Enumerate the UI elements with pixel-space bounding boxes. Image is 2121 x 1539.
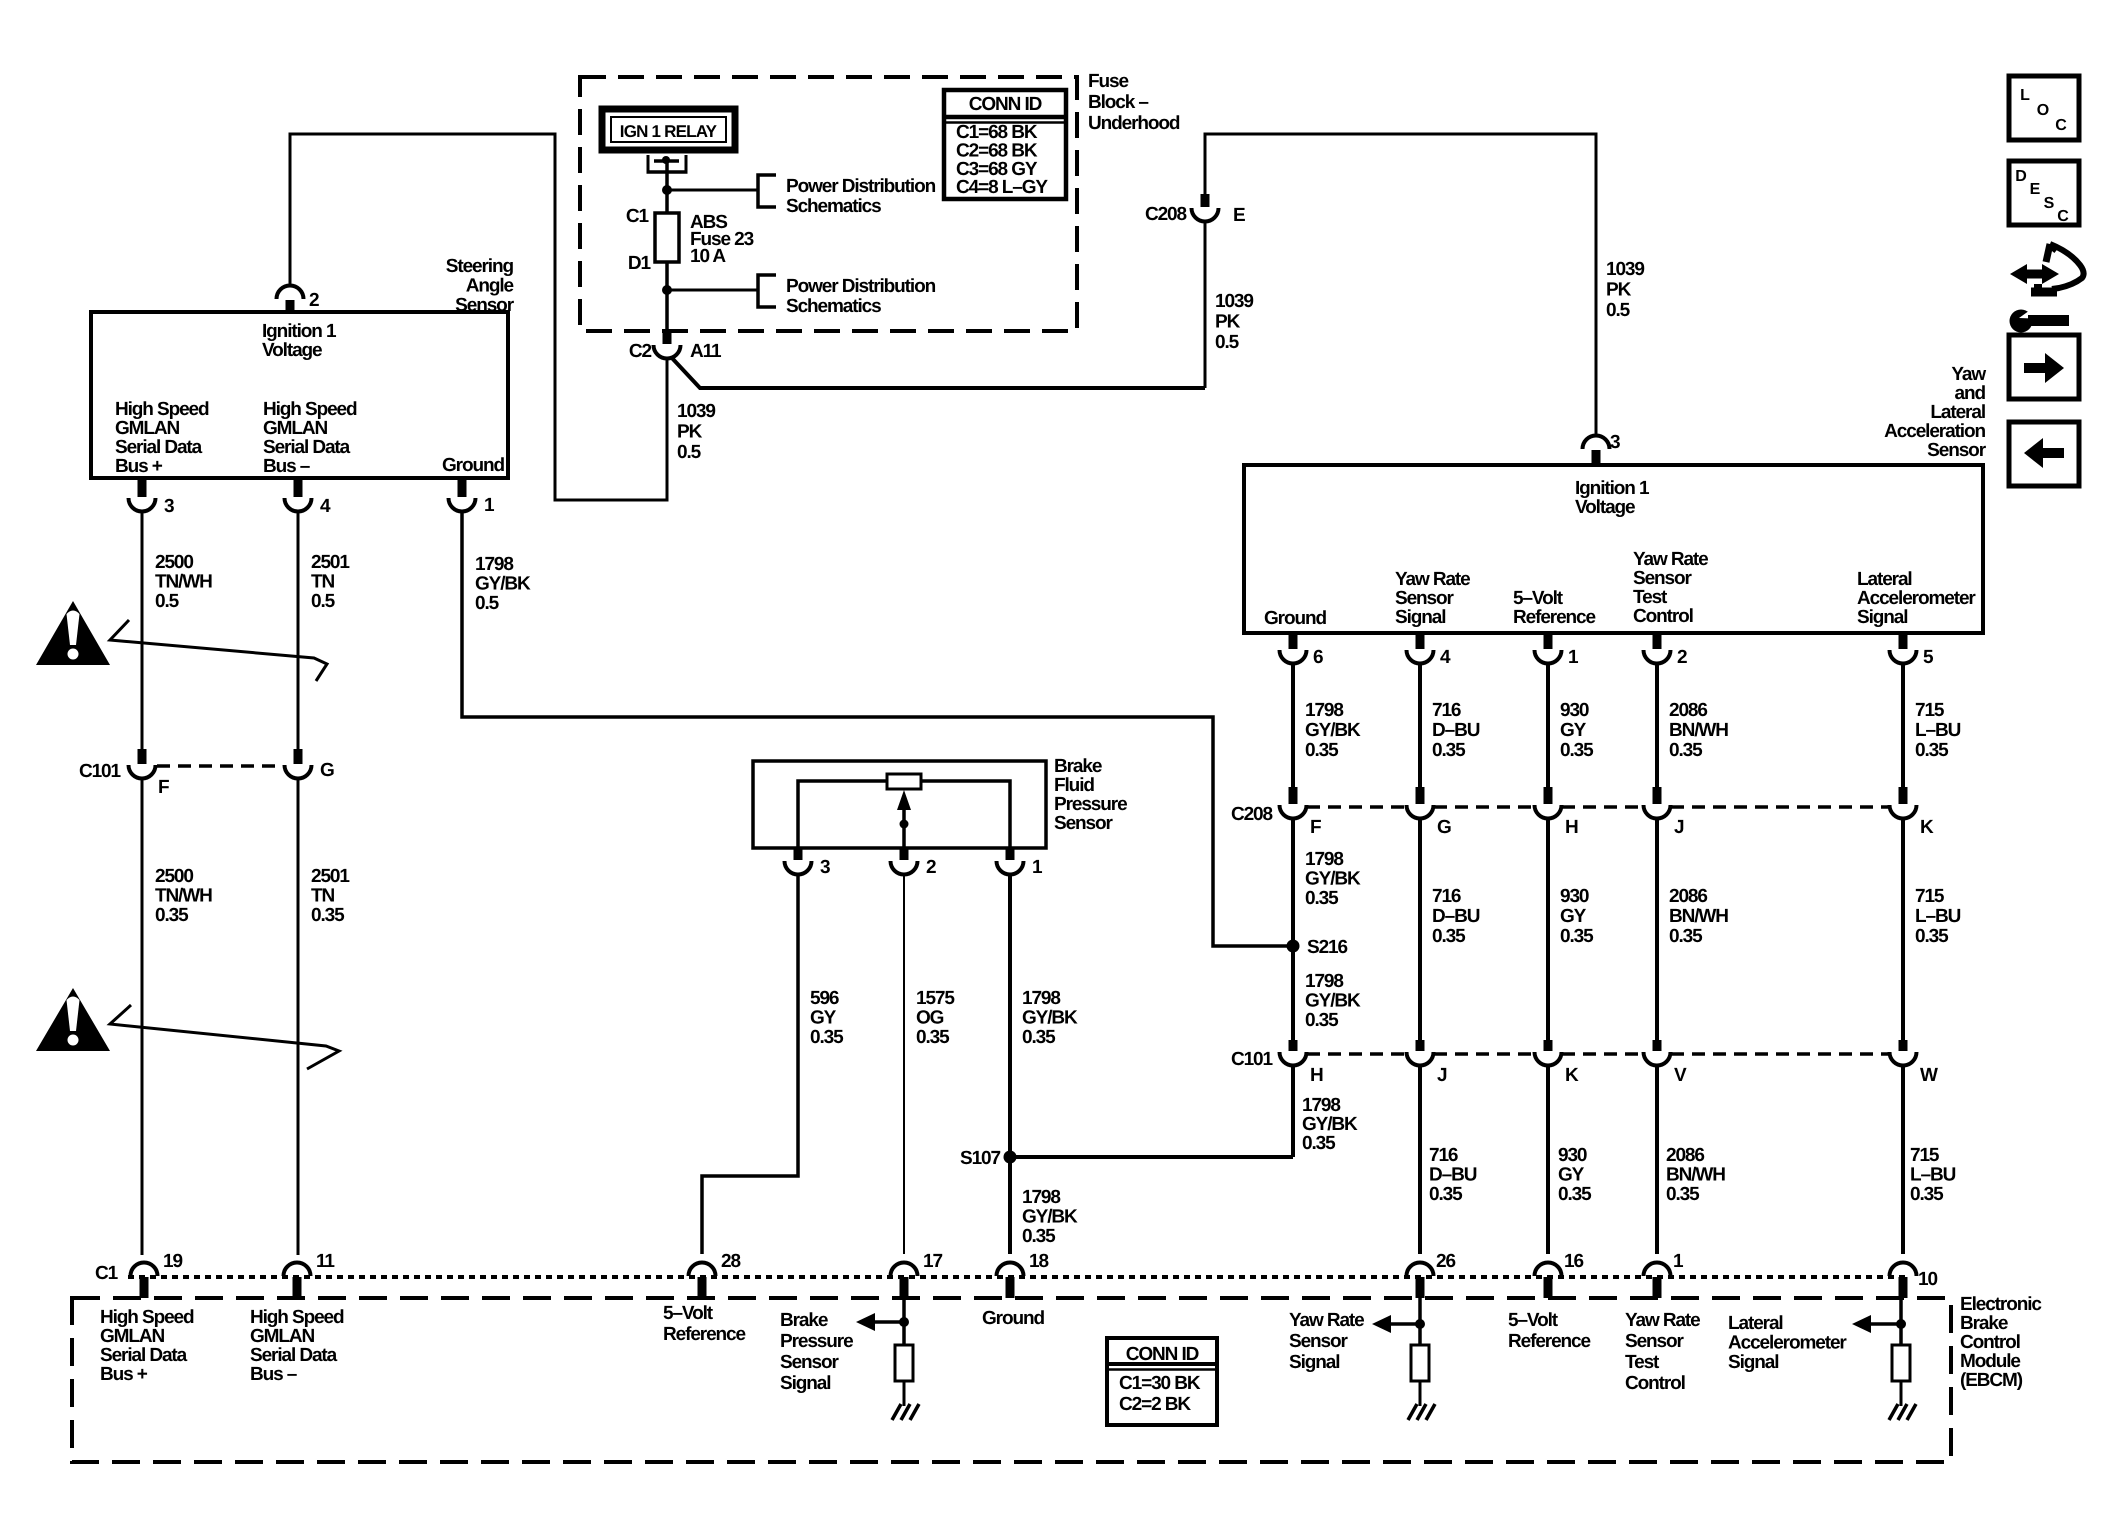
connector C101 pin K <box>1544 1040 1553 1051</box>
svg-text:High Speed: High Speed <box>250 1307 344 1328</box>
wire test control 2086 (C208 to C101) <box>1655 818 1659 1040</box>
svg-text:Bus –: Bus – <box>250 1364 297 1385</box>
connector C1 pin 28 (EBCM) <box>689 1263 716 1277</box>
svg-text:GY: GY <box>1558 1165 1585 1186</box>
twisted pair callout 1 <box>110 620 327 681</box>
connector C101 pin H <box>1289 1040 1298 1051</box>
wiper junction dot <box>900 820 909 829</box>
wire C208 E up and right to yaw pin 3 <box>1205 134 1596 437</box>
wire branch to power distribution 2 <box>667 289 758 292</box>
svg-text:1: 1 <box>1568 647 1579 668</box>
junction node (fuse output) <box>662 285 672 295</box>
svg-text:Serial Data: Serial Data <box>100 1345 188 1366</box>
svg-text:5: 5 <box>1923 647 1934 668</box>
internal wire pin to ground (x=904) <box>902 1298 906 1345</box>
svg-text:Yaw: Yaw <box>1951 364 1986 385</box>
svg-text:TN/WH: TN/WH <box>155 572 212 593</box>
ground symbol <box>1408 1404 1417 1420</box>
fuse block underhood dashed box <box>580 77 1077 331</box>
svg-text:3: 3 <box>820 857 830 878</box>
svg-text:2: 2 <box>309 290 319 311</box>
svg-text:BN/WH: BN/WH <box>1669 720 1728 741</box>
svg-text:CONN ID: CONN ID <box>1126 1344 1199 1365</box>
pin 3 (steering) <box>138 478 147 497</box>
svg-text:1: 1 <box>1032 857 1043 878</box>
icon box arrow left <box>2009 422 2079 486</box>
svg-text:6: 6 <box>1313 647 1323 668</box>
svg-text:Serial Data: Serial Data <box>115 437 203 458</box>
connector C208 pin G <box>1416 787 1425 804</box>
svg-text:Bus +: Bus + <box>115 456 163 477</box>
svg-text:Angle: Angle <box>466 276 514 297</box>
relay contact symbol <box>647 155 650 173</box>
svg-text:Fuse: Fuse <box>1088 71 1128 92</box>
svg-text:Steering: Steering <box>446 256 514 277</box>
pin 1 (brake sensor) <box>1006 848 1015 860</box>
svg-text:H: H <box>1565 817 1578 838</box>
svg-text:Control: Control <box>1625 1373 1685 1394</box>
svg-text:GY/BK: GY/BK <box>1305 720 1361 741</box>
svg-text:D–BU: D–BU <box>1432 906 1480 927</box>
wire 596 GY <box>702 874 798 1254</box>
svg-text:S216: S216 <box>1307 937 1348 958</box>
svg-text:Test: Test <box>1625 1352 1660 1373</box>
pin 3 (yaw, top) <box>1583 436 1610 450</box>
icon double arrow with wrench <box>2010 264 2059 284</box>
connector C208 pin K <box>1899 787 1908 804</box>
wire 1798 GY/BK 0.5 from steering ground <box>462 510 1290 946</box>
svg-text:26: 26 <box>1436 1251 1455 1272</box>
svg-text:4: 4 <box>320 496 331 517</box>
svg-text:GY/BK: GY/BK <box>1305 869 1361 890</box>
svg-text:GMLAN: GMLAN <box>115 418 180 439</box>
svg-text:GY: GY <box>1560 906 1587 927</box>
connector C208 pin H <box>1544 787 1553 804</box>
wire A11 diagonal to C208 E <box>671 357 1205 388</box>
pin 1 (steering ground) <box>458 478 467 497</box>
svg-text:715: 715 <box>1915 886 1945 907</box>
svg-text:Accelerometer: Accelerometer <box>1728 1333 1847 1354</box>
svg-text:Yaw Rate: Yaw Rate <box>1395 569 1470 590</box>
pin 5 (yaw) <box>1899 633 1908 649</box>
svg-text:Voltage: Voltage <box>1575 497 1635 518</box>
svg-text:D–BU: D–BU <box>1429 1165 1477 1186</box>
svg-text:1039: 1039 <box>677 401 715 422</box>
wire S107 to C101 H column <box>1010 1155 1293 1159</box>
svg-text:0.35: 0.35 <box>1560 926 1594 947</box>
signal arrow <box>873 1320 904 1324</box>
wire 5V ref 930 (yaw to C208) <box>1546 663 1550 787</box>
svg-text:Fluid: Fluid <box>1054 775 1094 796</box>
internal resistor <box>1892 1345 1910 1381</box>
svg-text:0.35: 0.35 <box>1432 926 1466 947</box>
svg-text:C101: C101 <box>1231 1049 1274 1070</box>
svg-text:(EBCM): (EBCM) <box>1960 1370 2023 1391</box>
svg-text:GMLAN: GMLAN <box>263 418 328 439</box>
svg-text:Control: Control <box>1633 606 1693 627</box>
connector row C1/C2 EBCM dotted line <box>128 1275 1910 1279</box>
svg-text:GY/BK: GY/BK <box>1022 1008 1078 1029</box>
svg-text:High Speed: High Speed <box>115 399 209 420</box>
svg-text:0.35: 0.35 <box>810 1027 844 1048</box>
pin 2 (steering, top) <box>277 286 304 300</box>
wire 5V ref 930 (C208 to C101) <box>1546 818 1550 1040</box>
svg-text:1798: 1798 <box>1022 1187 1060 1208</box>
connector C101 pin W <box>1899 1040 1908 1051</box>
svg-text:0.35: 0.35 <box>1669 740 1703 761</box>
potentiometer resistor body <box>887 774 921 789</box>
internal wire pin to ground (x=1420) <box>1418 1298 1422 1345</box>
svg-text:Sensor: Sensor <box>1927 440 1987 461</box>
svg-text:2086: 2086 <box>1669 700 1707 721</box>
pin 1 (yaw) <box>1544 633 1553 649</box>
svg-text:Pressure: Pressure <box>780 1331 853 1352</box>
svg-text:CONN ID: CONN ID <box>969 94 1042 115</box>
svg-text:Voltage: Voltage <box>262 340 322 361</box>
svg-text:1798: 1798 <box>1305 971 1343 992</box>
svg-text:0.35: 0.35 <box>1666 1184 1700 1205</box>
svg-text:Serial Data: Serial Data <box>263 437 351 458</box>
svg-text:C4=8 L–GY: C4=8 L–GY <box>956 177 1048 198</box>
svg-text:PK: PK <box>677 422 703 443</box>
yaw sensor box <box>1244 465 1983 633</box>
wire lateral accel 715 (yaw to C208) <box>1901 663 1905 787</box>
wire yaw signal 716 (C101 to EBCM) <box>1418 1065 1422 1254</box>
icon box DESC <box>2009 161 2079 225</box>
svg-text:J: J <box>1437 1065 1447 1086</box>
svg-text:D: D <box>2015 168 2027 185</box>
svg-text:0.35: 0.35 <box>1558 1184 1592 1205</box>
svg-text:V: V <box>1674 1065 1687 1086</box>
svg-text:0.5: 0.5 <box>155 591 180 612</box>
svg-text:2: 2 <box>926 857 936 878</box>
bracket power distribution 1 <box>758 175 776 207</box>
svg-text:10: 10 <box>1918 1269 1937 1290</box>
wire 1798 GY/BK (C208 F to S216 to C101 H) <box>1291 818 1295 1040</box>
svg-text:0.35: 0.35 <box>1305 888 1339 909</box>
wire lateral accel 715 (C208 to C101) <box>1901 818 1905 1040</box>
connector C101 pin V <box>1653 1040 1662 1051</box>
svg-text:TN: TN <box>311 886 335 907</box>
svg-text:0.35: 0.35 <box>1915 740 1949 761</box>
svg-text:1798: 1798 <box>1305 700 1343 721</box>
svg-text:0.35: 0.35 <box>1305 1010 1339 1031</box>
connector C101 pin J <box>1416 1040 1425 1051</box>
svg-text:Bus +: Bus + <box>100 1364 148 1385</box>
svg-text:Sensor: Sensor <box>1633 568 1693 589</box>
svg-text:1575: 1575 <box>916 988 955 1009</box>
svg-text:E: E <box>2030 181 2041 198</box>
svg-text:Reference: Reference <box>663 1324 746 1345</box>
svg-text:Lateral: Lateral <box>1857 569 1912 590</box>
wire 1575 OG <box>903 874 905 1254</box>
svg-text:D1: D1 <box>628 253 652 274</box>
svg-text:L–BU: L–BU <box>1910 1165 1956 1186</box>
connector C2 pin A11 <box>663 331 672 344</box>
svg-text:1798: 1798 <box>1022 988 1060 1009</box>
svg-text:TN: TN <box>311 572 335 593</box>
svg-text:0.5: 0.5 <box>1606 300 1631 321</box>
connector C1 pin 16 (EBCM) <box>1535 1263 1562 1277</box>
wire 1798 GY/BK (C101 H to S107) <box>1291 1065 1295 1157</box>
svg-text:715: 715 <box>1915 700 1945 721</box>
svg-text:G: G <box>1437 817 1451 838</box>
svg-text:1039: 1039 <box>1215 291 1253 312</box>
svg-text:K: K <box>1565 1065 1579 1086</box>
svg-text:O: O <box>2037 102 2049 119</box>
wire branch to power distribution 1 <box>667 189 758 192</box>
svg-text:0.35: 0.35 <box>1910 1184 1944 1205</box>
wire relay to fuse to C2 <box>665 162 669 331</box>
svg-text:0.35: 0.35 <box>916 1027 950 1048</box>
svg-text:S107: S107 <box>960 1148 1001 1169</box>
svg-text:Signal: Signal <box>1395 607 1445 628</box>
svg-text:2501: 2501 <box>311 552 350 573</box>
svg-text:716: 716 <box>1432 886 1461 907</box>
wire 2501 TN upper <box>297 510 300 749</box>
svg-text:Pressure: Pressure <box>1054 794 1127 815</box>
pin 3 (brake sensor) <box>794 848 803 860</box>
svg-text:10 A: 10 A <box>690 246 726 267</box>
wire A11 down-left loop to steering pin 2 <box>290 134 667 500</box>
svg-text:and: and <box>1955 383 1986 404</box>
svg-text:0.35: 0.35 <box>1022 1226 1056 1247</box>
connector C101 (left) pin F <box>138 749 147 764</box>
svg-text:Power Distribution: Power Distribution <box>786 176 936 197</box>
svg-text:19: 19 <box>163 1251 182 1272</box>
svg-text:Ground: Ground <box>1264 608 1326 629</box>
wire yaw signal 716 (yaw to C208) <box>1418 663 1422 787</box>
warning triangle 1 <box>36 601 110 665</box>
svg-text:Signal: Signal <box>780 1373 830 1394</box>
svg-text:Schematics: Schematics <box>786 196 881 217</box>
svg-text:W: W <box>1920 1065 1938 1086</box>
svg-text:Bus –: Bus – <box>263 456 310 477</box>
connector C1 pin 18 (EBCM) <box>996 1263 1023 1277</box>
wiper arrow <box>902 806 906 848</box>
wire 1798 GY/BK to pin 18 <box>1008 874 1012 1254</box>
connector C208 pin J <box>1653 787 1662 804</box>
svg-text:18: 18 <box>1029 1251 1048 1272</box>
svg-text:Sensor: Sensor <box>1625 1331 1685 1352</box>
svg-text:C208: C208 <box>1145 204 1187 225</box>
svg-text:Sensor: Sensor <box>1054 813 1114 834</box>
signal arrow <box>1869 1322 1901 1326</box>
svg-text:Signal: Signal <box>1728 1352 1778 1373</box>
svg-text:5–Volt: 5–Volt <box>1513 588 1564 609</box>
svg-text:596: 596 <box>810 988 839 1009</box>
svg-text:0.35: 0.35 <box>311 905 345 926</box>
svg-text:Ground: Ground <box>442 455 504 476</box>
svg-text:0.5: 0.5 <box>1215 332 1240 353</box>
svg-text:C1: C1 <box>626 206 650 227</box>
bracket power distribution 2 <box>758 275 776 307</box>
svg-text:2: 2 <box>1677 647 1687 668</box>
svg-text:GY/BK: GY/BK <box>1022 1207 1078 1228</box>
svg-text:716: 716 <box>1429 1145 1458 1166</box>
svg-text:C101: C101 <box>79 761 122 782</box>
svg-text:1039: 1039 <box>1606 259 1644 280</box>
svg-text:Signal: Signal <box>1289 1352 1339 1373</box>
svg-text:Reference: Reference <box>1513 607 1596 628</box>
svg-text:C2: C2 <box>629 341 652 362</box>
svg-text:0.5: 0.5 <box>475 593 500 614</box>
svg-text:Serial Data: Serial Data <box>250 1345 338 1366</box>
svg-text:Accelerometer: Accelerometer <box>1857 588 1976 609</box>
svg-text:2500: 2500 <box>155 866 193 887</box>
pin 2 (brake sensor) <box>900 848 909 860</box>
svg-text:1: 1 <box>1673 1251 1684 1272</box>
connector C1 pin 26 (EBCM) <box>1407 1263 1434 1277</box>
svg-text:High Speed: High Speed <box>263 399 357 420</box>
connector C1 pin 19 (EBCM) <box>131 1263 158 1277</box>
svg-text:C1=30 BK: C1=30 BK <box>1119 1373 1201 1394</box>
wire lateral accel 715 (C101 to EBCM) <box>1901 1065 1905 1254</box>
svg-text:BN/WH: BN/WH <box>1669 906 1728 927</box>
svg-text:2500: 2500 <box>155 552 193 573</box>
wire 2500 TN/WH lower <box>141 777 144 1255</box>
svg-text:Lateral: Lateral <box>1728 1313 1783 1334</box>
svg-text:High Speed: High Speed <box>100 1307 194 1328</box>
svg-text:PK: PK <box>1606 280 1632 301</box>
wire 2501 TN lower <box>297 777 300 1255</box>
svg-text:3: 3 <box>1610 432 1620 453</box>
svg-text:0.35: 0.35 <box>1432 740 1466 761</box>
wire ground 1798 (yaw to C208) <box>1291 663 1295 787</box>
svg-text:0.35: 0.35 <box>1669 926 1703 947</box>
junction dot <box>1896 1319 1906 1329</box>
svg-text:716: 716 <box>1432 700 1461 721</box>
svg-text:16: 16 <box>1564 1251 1583 1272</box>
ground symbol <box>1889 1404 1898 1420</box>
dashed connector line C101 <box>1307 1052 1406 1056</box>
svg-text:Yaw Rate: Yaw Rate <box>1625 1310 1700 1331</box>
svg-text:0.35: 0.35 <box>1302 1133 1336 1154</box>
ground symbol <box>892 1404 901 1420</box>
internal resistor <box>895 1345 913 1381</box>
signal arrow <box>1389 1322 1420 1326</box>
svg-text:1798: 1798 <box>475 554 513 575</box>
potentiometer internal wires <box>798 781 1010 848</box>
svg-text:GY: GY <box>810 1008 837 1029</box>
svg-text:0.35: 0.35 <box>1429 1184 1463 1205</box>
svg-text:Power Distribution: Power Distribution <box>786 276 936 297</box>
wire 5V ref 930 (C101 to EBCM) <box>1546 1065 1550 1254</box>
svg-text:Acceleration: Acceleration <box>1884 421 1985 442</box>
svg-text:Schematics: Schematics <box>786 296 881 317</box>
svg-text:11: 11 <box>316 1251 335 1272</box>
svg-text:GY/BK: GY/BK <box>475 574 531 595</box>
svg-text:5–Volt: 5–Volt <box>663 1303 714 1324</box>
wrench <box>2010 310 2033 333</box>
svg-text:F: F <box>1310 817 1321 838</box>
connector C208 pin F <box>1289 787 1298 804</box>
svg-text:C2=2 BK: C2=2 BK <box>1119 1394 1191 1415</box>
svg-text:1798: 1798 <box>1305 849 1343 870</box>
svg-text:0.35: 0.35 <box>155 905 189 926</box>
svg-text:GY/BK: GY/BK <box>1305 991 1361 1012</box>
svg-text:0.35: 0.35 <box>1305 740 1339 761</box>
svg-text:GY/BK: GY/BK <box>1302 1114 1358 1135</box>
junction dot <box>1415 1319 1425 1329</box>
svg-text:2086: 2086 <box>1666 1145 1704 1166</box>
svg-text:C: C <box>2055 117 2067 134</box>
svg-text:L: L <box>2020 87 2030 104</box>
dashed connector line C208 <box>1307 805 1406 809</box>
svg-text:PK: PK <box>1215 312 1241 333</box>
connector C1 pin 17 (EBCM) <box>891 1263 918 1277</box>
splice S107 <box>1004 1151 1017 1164</box>
svg-text:S: S <box>2044 195 2055 212</box>
svg-text:930: 930 <box>1560 886 1589 907</box>
connector C1 pin 11 (EBCM) <box>284 1263 311 1277</box>
svg-text:Signal: Signal <box>1857 607 1907 628</box>
svg-text:GY: GY <box>1560 720 1587 741</box>
svg-text:BN/WH: BN/WH <box>1666 1165 1725 1186</box>
svg-text:1: 1 <box>484 495 495 516</box>
svg-text:Ground: Ground <box>982 1308 1044 1329</box>
pin 4 (yaw) <box>1416 633 1425 649</box>
svg-text:715: 715 <box>1910 1145 1940 1166</box>
svg-text:Ignition 1: Ignition 1 <box>262 321 337 342</box>
svg-text:1798: 1798 <box>1302 1095 1340 1116</box>
svg-text:0.5: 0.5 <box>311 591 336 612</box>
svg-text:E: E <box>1233 205 1245 226</box>
connector C1 pin 1 (EBCM) <box>1644 1263 1671 1277</box>
svg-text:Block –: Block – <box>1088 92 1148 113</box>
svg-text:L–BU: L–BU <box>1915 720 1961 741</box>
svg-text:Electronic: Electronic <box>1960 1294 2042 1315</box>
warning triangle 2 <box>36 988 110 1051</box>
wire test control 2086 (C101 to EBCM) <box>1655 1065 1659 1254</box>
pin 6 (yaw) <box>1289 633 1298 649</box>
connector C101 (left) pin G <box>294 749 303 764</box>
svg-text:Brake: Brake <box>1054 756 1102 777</box>
svg-text:GMLAN: GMLAN <box>100 1326 165 1347</box>
junction dot <box>899 1317 909 1327</box>
svg-text:Brake: Brake <box>780 1310 828 1331</box>
svg-text:C208: C208 <box>1231 804 1273 825</box>
dashed connector line C101 left <box>157 764 283 768</box>
svg-text:GMLAN: GMLAN <box>250 1326 315 1347</box>
svg-text:0.35: 0.35 <box>1560 740 1594 761</box>
svg-text:G: G <box>320 760 334 781</box>
CONN ID table (fuse block) <box>944 90 1066 199</box>
svg-text:2501: 2501 <box>311 866 350 887</box>
svg-text:17: 17 <box>923 1251 942 1272</box>
svg-text:L–BU: L–BU <box>1915 906 1961 927</box>
svg-text:Brake: Brake <box>1960 1313 2008 1334</box>
svg-text:Sensor: Sensor <box>780 1352 840 1373</box>
connector C1 pin 10 (EBCM) <box>1890 1263 1917 1277</box>
CONN ID table (EBCM) <box>1107 1338 1217 1425</box>
svg-text:Sensor: Sensor <box>1289 1331 1349 1352</box>
svg-text:Test: Test <box>1633 587 1668 608</box>
svg-text:C: C <box>2057 208 2069 225</box>
svg-text:Sensor: Sensor <box>1395 588 1455 609</box>
svg-text:H: H <box>1310 1065 1323 1086</box>
svg-text:930: 930 <box>1558 1145 1587 1166</box>
svg-text:28: 28 <box>721 1251 740 1272</box>
svg-text:5–Volt: 5–Volt <box>1508 1310 1559 1331</box>
pin 4 (steering) <box>294 478 303 497</box>
wire test control 2086 (yaw to C208) <box>1655 663 1659 787</box>
svg-text:Module: Module <box>1960 1351 2020 1372</box>
svg-text:IGN 1 RELAY: IGN 1 RELAY <box>620 122 718 141</box>
pin 2 (yaw) <box>1653 633 1662 649</box>
svg-text:0.35: 0.35 <box>1915 926 1949 947</box>
svg-text:F: F <box>158 777 169 798</box>
